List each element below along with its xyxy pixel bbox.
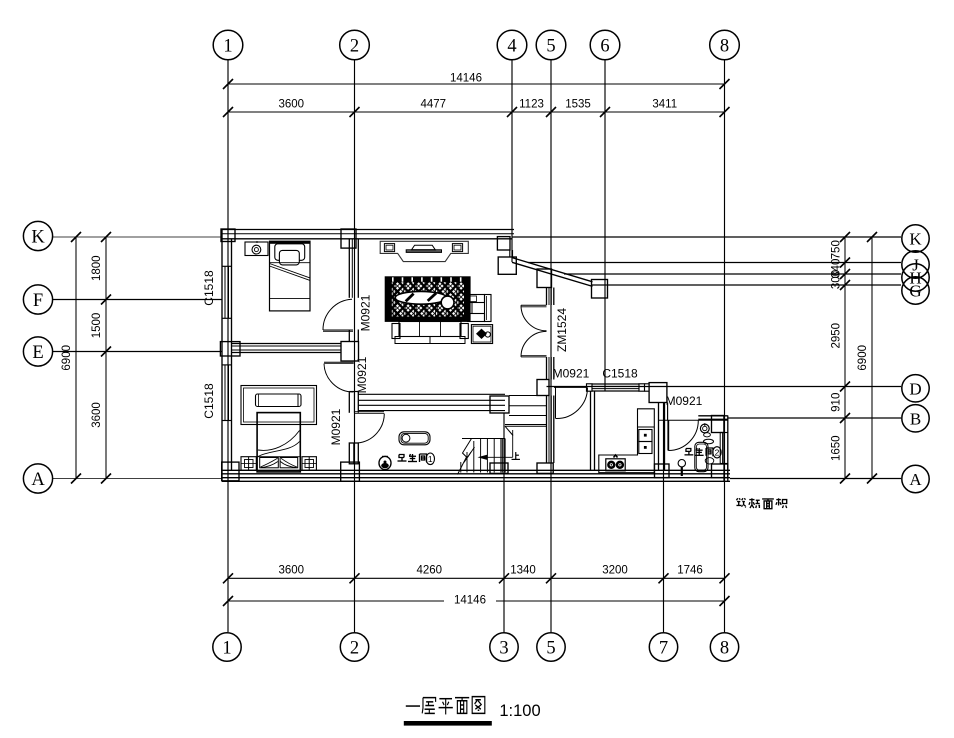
grid bubble A left xyxy=(23,464,52,493)
svg-text:5: 5 xyxy=(546,638,555,658)
washbasin bath2 xyxy=(700,423,713,444)
window C1518 left lower xyxy=(222,365,232,421)
grid bubble 1 bottom xyxy=(213,633,241,661)
column axis5 diagonal xyxy=(537,269,552,288)
floor drain bath2 xyxy=(678,460,685,477)
svg-text:G: G xyxy=(909,281,921,300)
column top-left corner xyxy=(221,229,235,242)
left segment dimension line 1800/1500/3600 xyxy=(91,232,111,484)
armchair xyxy=(468,295,492,322)
svg-text:E: E xyxy=(32,343,43,363)
svg-text:1: 1 xyxy=(428,454,433,464)
grid bubble D right xyxy=(902,375,929,402)
svg-text:1123: 1123 xyxy=(519,99,544,111)
svg-text:3600: 3600 xyxy=(278,565,304,577)
door M0921 bath1 xyxy=(355,412,384,443)
svg-text:3411: 3411 xyxy=(652,99,677,111)
grid line 6 (vertical axis 6) xyxy=(604,60,606,391)
svg-text:K: K xyxy=(31,227,45,247)
svg-text:5: 5 xyxy=(546,36,555,56)
grid line 3 (vertical axis 3) xyxy=(503,413,505,632)
wall: left exterior (axis 1) xyxy=(222,230,232,482)
label C1518 kitchen window xyxy=(602,367,638,381)
entrance double door ZM1524 xyxy=(521,305,547,357)
wall: bath2 east exterior xyxy=(724,416,728,482)
svg-text:M0921: M0921 xyxy=(355,356,369,393)
wall: axis-2 bath1 jamb lower xyxy=(349,443,358,464)
wall: kitchen/bath2 divider (axis 7) xyxy=(659,403,668,471)
nightstand bedroom1 xyxy=(245,241,268,256)
svg-text:3200: 3200 xyxy=(602,565,628,577)
wall: south exterior (axis A) xyxy=(222,470,730,481)
svg-text:300: 300 xyxy=(831,270,843,289)
grid bubble K right xyxy=(902,225,929,252)
svg-text:2: 2 xyxy=(715,447,720,457)
column left/axisE xyxy=(220,342,240,356)
label 卫生间1 xyxy=(398,453,435,465)
left overall dimension line 6900 xyxy=(61,232,81,484)
svg-text:M0921: M0921 xyxy=(666,394,703,408)
grid bubble B right xyxy=(902,405,929,432)
svg-text:1650: 1650 xyxy=(831,435,843,461)
svg-text:3600: 3600 xyxy=(278,99,304,111)
bed bedroom2 xyxy=(257,413,300,472)
bathtub bath1 xyxy=(399,432,430,445)
grid bubble F left xyxy=(23,285,52,314)
svg-text:B: B xyxy=(910,409,921,428)
grid line G (horizontal axis G) xyxy=(592,284,901,286)
svg-text:1746: 1746 xyxy=(677,565,703,577)
grid bubble 1 top xyxy=(213,30,243,60)
bedside stool right bedroom2 xyxy=(302,457,316,471)
label M0921 kitchen door xyxy=(553,367,590,381)
svg-text:D: D xyxy=(909,379,921,398)
column axis2/K xyxy=(341,229,356,248)
wall: bath2 north (axis B) xyxy=(659,416,728,421)
grid bubble J right xyxy=(902,251,929,278)
svg-text:3600: 3600 xyxy=(91,402,103,428)
label 卫生间2 xyxy=(684,447,721,458)
svg-text:1500: 1500 xyxy=(91,313,103,339)
kitchen counter xyxy=(599,409,655,473)
title 一层平面图 xyxy=(406,697,485,715)
svg-text:F: F xyxy=(33,291,43,311)
svg-text:1: 1 xyxy=(222,638,231,658)
grid line 7 (vertical axis 7) xyxy=(663,403,665,632)
bed bedroom1 xyxy=(270,241,311,311)
headboard wardrobe bedroom2 xyxy=(241,386,317,425)
grid line 1 (vertical axis 1) xyxy=(227,60,229,632)
toilet bath1 xyxy=(379,456,391,469)
sofa xyxy=(392,322,468,344)
grid line K (horizontal axis K) xyxy=(52,236,901,238)
column axis2 south xyxy=(341,462,360,481)
column axis7 south xyxy=(655,464,670,478)
grid line H (horizontal axis H) xyxy=(564,273,901,275)
wall: hall east (axis 5) upper stub xyxy=(547,288,554,306)
column axis2/axisE xyxy=(341,342,359,362)
svg-text:910: 910 xyxy=(831,393,843,412)
svg-text:6900: 6900 xyxy=(857,345,869,371)
stair break line xyxy=(458,439,472,475)
label M0921 bedroom2 door xyxy=(355,356,369,393)
column axis5/axisD xyxy=(537,380,549,396)
label ZM1524 xyxy=(555,308,569,352)
right segment dimension line 750/340/300/2950/910/1650 xyxy=(831,232,851,484)
grid bubble 7 bottom xyxy=(649,633,677,661)
stair bottom flight treads xyxy=(461,439,505,473)
label M0921 bath2 door xyxy=(666,394,703,408)
grid bubble 6 top xyxy=(590,30,620,60)
column axis6 diagonal end xyxy=(592,280,608,299)
grid line 8 (vertical axis 8) xyxy=(724,60,726,632)
grid bubble 4 top xyxy=(497,30,527,60)
bedside stool left bedroom2 xyxy=(241,457,256,471)
svg-text:6: 6 xyxy=(600,36,609,56)
wall: kitchen north band / axis D with window C1518 xyxy=(587,384,650,391)
svg-text:1:100: 1:100 xyxy=(499,702,540,720)
column axis4/K xyxy=(497,237,510,250)
upper stair flight treads by hall east wall xyxy=(505,396,547,436)
grid bubble G right xyxy=(902,277,929,304)
window C1518 left upper xyxy=(222,266,232,318)
top overall dimension line 14146 xyxy=(223,73,730,90)
svg-text:14146: 14146 xyxy=(450,73,482,85)
grid line E (horizontal axis E) xyxy=(52,351,222,353)
grid line J (horizontal axis J) xyxy=(528,262,901,264)
door M0921 bedroom1 xyxy=(323,299,353,331)
column axis4 diagonal start xyxy=(498,257,516,274)
svg-text:1340: 1340 xyxy=(510,565,536,577)
svg-text:2950: 2950 xyxy=(831,323,843,349)
wall: axis-2 interior below bedroom2 door xyxy=(349,392,358,413)
label 上 (up) xyxy=(512,452,520,459)
grid line A (horizontal axis A) xyxy=(52,478,901,480)
label C1518 left lower window xyxy=(202,383,216,419)
svg-text:M0921: M0921 xyxy=(553,367,590,381)
column bottom-left corner xyxy=(222,462,239,481)
wall: bedroom divider (axis E) xyxy=(232,344,342,353)
column axis5 south xyxy=(537,463,553,473)
grid bubble H right xyxy=(902,264,929,291)
stair up arrow xyxy=(464,430,513,463)
rug with dining table xyxy=(385,277,470,322)
svg-text:8: 8 xyxy=(720,36,729,56)
door M0921 kitchen xyxy=(554,387,588,418)
column bath1 north / axis3 xyxy=(490,396,509,413)
wall stub between axis4 columns xyxy=(510,250,513,257)
svg-text:14146: 14146 xyxy=(454,595,486,607)
grid bubble 5 top xyxy=(536,30,566,60)
TV cabinet xyxy=(380,241,468,261)
svg-text:1800: 1800 xyxy=(91,255,103,281)
wall: axis-2 interior mid xyxy=(349,330,358,342)
svg-text:4477: 4477 xyxy=(420,99,446,111)
column bath2 SE corner xyxy=(712,464,728,478)
svg-text:6900: 6900 xyxy=(61,345,73,371)
bottom overall dimension line 14146 xyxy=(223,595,730,607)
label M0921 bedroom1 door xyxy=(359,294,373,331)
label 建筑面积 (building area) xyxy=(736,498,786,508)
grid bubble K left xyxy=(23,221,52,250)
grid line 5 (vertical axis 5) xyxy=(550,60,552,632)
grid bubble 3 bottom xyxy=(490,633,518,661)
wall: hall east (axis 5) below entrance xyxy=(547,357,554,380)
svg-text:C1518: C1518 xyxy=(202,270,216,306)
grid bubble 2 top xyxy=(340,30,370,60)
svg-text:C1518: C1518 xyxy=(602,367,638,381)
wall: axis-2 interior upper (bedroom1 east) xyxy=(349,239,358,298)
svg-text:K: K xyxy=(909,229,922,248)
svg-text:C1518: C1518 xyxy=(202,383,216,419)
svg-text:3: 3 xyxy=(499,638,508,658)
grid line B (horizontal axis B) xyxy=(728,417,901,419)
title underline xyxy=(404,721,492,726)
svg-text:A: A xyxy=(31,470,45,490)
svg-text:M0921: M0921 xyxy=(359,294,373,331)
window bath2 east wall xyxy=(720,433,728,464)
svg-text:1535: 1535 xyxy=(565,99,591,111)
kitchen stove xyxy=(606,455,625,471)
svg-text:2: 2 xyxy=(350,36,359,56)
wall: top exterior (axis K) xyxy=(222,230,514,239)
svg-text:A: A xyxy=(909,470,922,489)
grid bubble 8 bottom xyxy=(710,633,738,661)
grid bubble 2 bottom xyxy=(340,633,368,661)
svg-text:750: 750 xyxy=(831,240,843,259)
diagonal wall between axis 4 and axis 6 xyxy=(512,258,593,287)
grid line 4 (vertical axis 4) xyxy=(511,60,513,262)
toilet bath2 xyxy=(695,442,714,471)
wall: bath1 north multi-line band xyxy=(358,394,505,410)
svg-text:M0921: M0921 xyxy=(329,408,343,445)
svg-text:1: 1 xyxy=(223,36,232,56)
kitchen sink unit xyxy=(638,427,655,454)
top segment dimension line 3600/4477/1123/1535/3411 xyxy=(223,99,730,118)
wall: kitchen west xyxy=(591,391,595,470)
svg-text:4: 4 xyxy=(507,36,516,56)
title scale 1:100 xyxy=(499,702,540,720)
door M0921 bath2 xyxy=(668,421,698,451)
grid bubble A right xyxy=(902,465,929,492)
door M0921 bedroom2 xyxy=(324,362,354,392)
bottom segment dimension line 3600/4260/1340/3200/1746 xyxy=(223,565,730,584)
label C1518 left upper window xyxy=(202,270,216,306)
grid bubble E left xyxy=(23,337,52,366)
grid line 2 (vertical axis 2) xyxy=(354,60,356,632)
svg-text:4260: 4260 xyxy=(416,565,442,577)
column bath2 NE corner xyxy=(712,416,725,433)
grid bubble 8 top xyxy=(710,30,740,60)
label M0921 bath1 door xyxy=(329,408,343,445)
grid bubble 5 bottom xyxy=(537,633,565,661)
side table with plant xyxy=(471,325,492,344)
svg-text:8: 8 xyxy=(720,638,729,658)
svg-text:ZM1524: ZM1524 xyxy=(555,308,569,352)
wall: hall east (axis 5) lower xyxy=(547,396,554,464)
grid line F (horizontal axis F) xyxy=(52,299,222,301)
right overall dimension line 6900 xyxy=(857,232,877,484)
column axis3 south xyxy=(490,463,508,473)
svg-text:2: 2 xyxy=(350,638,359,658)
column kitchen NE axis7/D xyxy=(649,383,667,403)
grid line D (horizontal axis D) xyxy=(547,386,902,388)
svg-text:7: 7 xyxy=(659,638,668,658)
